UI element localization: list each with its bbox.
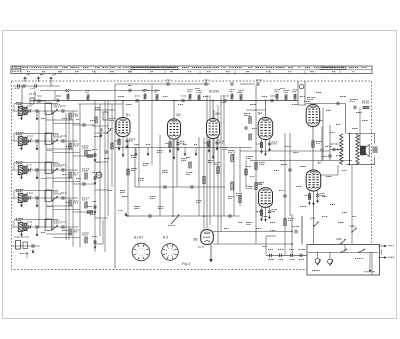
svg-text:B4: B4 [258,112,262,116]
svg-text:B7: B7 [318,161,322,165]
svg-text:S47: S47 [310,217,316,221]
svg-text:B2: B2 [177,113,181,117]
svg-text:S48: S48 [336,237,342,241]
svg-text:B1-B7: B1-B7 [134,236,144,240]
svg-text:B8: B8 [194,238,198,242]
svg-text:Fig.3: Fig.3 [182,262,190,266]
svg-text:B3: B3 [216,112,220,116]
svg-text:BG539: BG539 [209,90,219,94]
svg-text:B1: B1 [126,113,130,117]
svg-text:B 9: B 9 [163,236,168,240]
svg-text:S49: S49 [350,224,356,228]
